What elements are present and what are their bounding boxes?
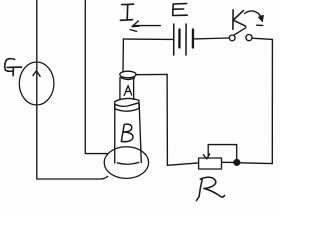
label G	[5, 59, 15, 72]
junction dot	[234, 160, 240, 166]
label B	[121, 124, 133, 142]
tube A sides	[120, 78, 134, 100]
induction loop around vessel bottom	[104, 147, 148, 179]
label I	[120, 4, 133, 20]
wire: junction to rheostat	[222, 161, 234, 163]
vessel cap rim	[115, 98, 139, 101]
rheostat slider arrow	[203, 154, 209, 159]
wire: left riser up to tube level	[166, 74, 168, 165]
wire: bottom, corner to junction	[240, 162, 272, 165]
wire: switch to top-right corner	[252, 38, 272, 39]
wire: tube A right terminal to riser	[136, 73, 167, 75]
switch K1 contacts	[229, 35, 235, 41]
wire: top wire down to tube A (left terminal)	[122, 39, 124, 72]
wire: right side vertical	[271, 39, 273, 163]
wire: left galvanometer branch (vertical through G, bottom run to loop)	[37, 0, 108, 179]
galvanometer G1	[19, 62, 54, 105]
label K	[233, 10, 246, 30]
wire: rheostat to left riser	[167, 163, 198, 165]
current arrow inside galvanometer	[33, 71, 40, 77]
wire: second galvanometer branch (vertical + run to loop top-left)	[85, 1, 107, 154]
label E	[173, 4, 188, 16]
label A	[124, 86, 132, 96]
wire: slider tap loop to junction	[208, 145, 237, 160]
switch K1 blade	[234, 28, 246, 36]
battery E1	[173, 24, 175, 55]
rheostat R1 body	[199, 158, 222, 169]
arrow: switch closing direction	[245, 11, 262, 18]
wire: top horizontal, left section to battery	[123, 38, 173, 40]
tube A top ellipse	[120, 71, 136, 78]
label R	[199, 179, 202, 196]
current direction arrow I	[130, 21, 160, 32]
wire: battery to switch	[194, 37, 229, 40]
vessel B body	[115, 104, 142, 164]
